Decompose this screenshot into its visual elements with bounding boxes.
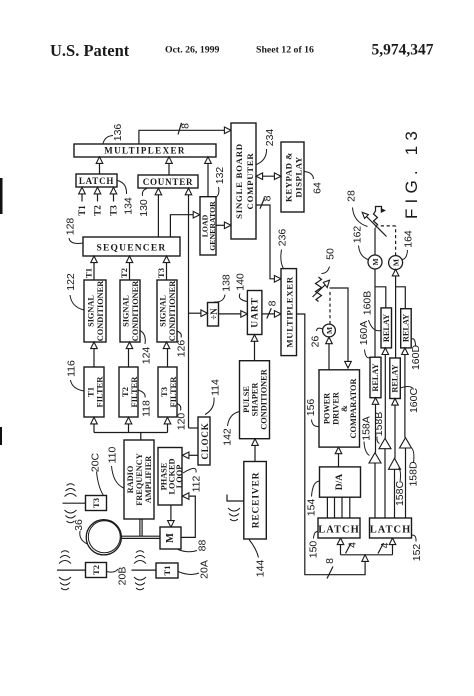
- svg-text:SIGNAL: SIGNAL: [159, 295, 168, 327]
- label 132: [214, 167, 226, 198]
- svg-text:LOOP: LOOP: [175, 465, 184, 489]
- wire sequencer to counter: [155, 188, 162, 237]
- svg-text:D/A: D/A: [335, 474, 345, 491]
- wire bus to divide by N: [189, 310, 208, 317]
- label 160C: [401, 387, 421, 413]
- svg-text:20A: 20A: [199, 560, 211, 579]
- wire t3 filter to sc3: [163, 342, 170, 367]
- svg-text:RELAY: RELAY: [391, 364, 400, 392]
- svg-text:134: 134: [123, 197, 135, 215]
- label 158A: [361, 416, 373, 455]
- T2 input stub to latch: [93, 187, 103, 215]
- motor circle 164: [389, 256, 403, 270]
- svg-text:LATCH: LATCH: [79, 176, 114, 186]
- svg-text:126: 126: [176, 340, 188, 358]
- svg-text:RELAY: RELAY: [382, 314, 391, 342]
- label 50: [322, 248, 337, 273]
- antenna T1: [132, 551, 157, 590]
- wire D/A to power driver: [335, 447, 342, 467]
- transmitter T3 box: [86, 496, 107, 511]
- svg-text:162: 162: [352, 226, 364, 244]
- svg-text:150: 150: [308, 541, 320, 559]
- label 36: [73, 519, 88, 544]
- FIG. 13: [402, 126, 421, 219]
- wire load generator to single board computer: [216, 222, 231, 229]
- svg-text:SINGLE BOARD: SINGLE BOARD: [234, 143, 244, 219]
- latch box 150: [318, 518, 360, 538]
- relay box 160D: [401, 309, 412, 348]
- label 162: [352, 226, 369, 260]
- label 158D: [408, 448, 420, 487]
- T3 filter box: [158, 367, 178, 417]
- label 160D: [410, 339, 422, 370]
- wire rheostat to power driver: [330, 288, 352, 368]
- latch splitter wire with /4 branches: [337, 538, 396, 555]
- svg-text:26: 26: [310, 336, 322, 348]
- svg-text:20B: 20B: [117, 567, 129, 586]
- svg-text:CONDITIONER: CONDITIONER: [131, 280, 140, 341]
- label 150: [308, 531, 320, 558]
- svg-text:COUNTER: COUNTER: [143, 177, 194, 187]
- motor circle 26 drive: [323, 324, 336, 337]
- svg-text:÷N: ÷N: [209, 308, 219, 320]
- label 126: [176, 331, 188, 357]
- svg-text:T3: T3: [91, 498, 101, 508]
- svg-text:160B: 160B: [362, 291, 374, 316]
- relay box 160C: [390, 358, 401, 399]
- bidirectional wire SBC to keypad: [256, 173, 281, 180]
- svg-text:28: 28: [346, 190, 358, 202]
- svg-text:Oct. 26, 1999: Oct. 26, 1999: [165, 45, 220, 56]
- loop antenna coil 36: [86, 520, 121, 555]
- buffer 158A to relay 160A: [369, 398, 381, 518]
- wire SBC to multiplexer2 with /8: [256, 195, 281, 282]
- svg-text:M: M: [392, 259, 401, 266]
- wire t2 filter to sc2: [126, 342, 133, 367]
- single board computer box: [231, 123, 256, 239]
- svg-text:FILTER: FILTER: [95, 376, 105, 408]
- rf amp output bus to filters: [91, 417, 171, 440]
- wire sequencer to load generator: [170, 211, 199, 237]
- label 128: [65, 218, 84, 244]
- svg-text:4: 4: [379, 542, 391, 548]
- wire load generator to multiplexer: [205, 157, 212, 197]
- label 118: [138, 390, 153, 417]
- svg-text:LATCH: LATCH: [318, 525, 360, 536]
- label 20C: [90, 452, 104, 495]
- svg-text:130: 130: [138, 199, 150, 217]
- svg-text:138: 138: [221, 274, 233, 292]
- label 158C: [394, 468, 406, 506]
- svg-text:8: 8: [180, 123, 192, 129]
- svg-text:SIGNAL: SIGNAL: [87, 295, 96, 327]
- svg-text:110: 110: [107, 446, 119, 463]
- wire latch to multiplexer: [96, 157, 103, 174]
- label 138: [214, 274, 233, 302]
- counter box: [138, 175, 198, 188]
- mechanical double link coil to motor M: [121, 536, 160, 538]
- svg-text:RELAY: RELAY: [371, 363, 380, 391]
- svg-text:CONDITIONER: CONDITIONER: [96, 280, 105, 341]
- label 154: [306, 481, 320, 516]
- svg-text:88: 88: [197, 540, 209, 552]
- svg-text:SIGNAL: SIGNAL: [122, 295, 131, 327]
- label 20A: [178, 560, 211, 579]
- svg-text:36: 36: [73, 519, 85, 531]
- svg-text:FILTER: FILTER: [168, 376, 178, 408]
- svg-text:SHAPER: SHAPER: [251, 382, 260, 417]
- antenna T3: [63, 484, 86, 523]
- label 116: [66, 360, 85, 391]
- svg-text:M: M: [165, 533, 176, 543]
- signal conditioner 1 box: [84, 280, 106, 342]
- svg-text:160C: 160C: [408, 388, 420, 414]
- load generator box: [200, 197, 217, 255]
- phase locked loop box: [158, 448, 184, 506]
- latch box 152: [370, 518, 412, 538]
- svg-text:118: 118: [141, 400, 153, 417]
- svg-text:FILTER: FILTER: [129, 376, 139, 408]
- label 140: [235, 273, 248, 301]
- antenna T2: [57, 551, 86, 590]
- label 236: [277, 229, 289, 269]
- svg-text:UART: UART: [251, 297, 261, 328]
- svg-text:158D: 158D: [408, 461, 420, 487]
- svg-text:154: 154: [306, 499, 318, 517]
- signal conditioner 3 box: [157, 280, 177, 342]
- power driver and comparator box: [319, 370, 360, 447]
- wire sc2 to sequencer with T2: [119, 256, 133, 280]
- wire t1 filter to sc1: [91, 342, 98, 367]
- label 136: [103, 124, 124, 144]
- wire motor 162 to relay A and relay B: [375, 269, 386, 357]
- svg-text:158C: 158C: [394, 481, 406, 507]
- svg-text:MULTIPLEXER: MULTIPLEXER: [285, 276, 295, 347]
- wire clock to bus: [189, 427, 199, 429]
- svg-text:122: 122: [65, 273, 77, 291]
- svg-text:64: 64: [312, 182, 324, 194]
- radio frequency amplifier box: [124, 440, 154, 519]
- svg-text:128: 128: [65, 218, 77, 236]
- wire motor M to pll right edge: [181, 493, 195, 538]
- receiver antenna: [227, 495, 244, 521]
- transmitter T1 box: [156, 563, 178, 578]
- svg-text:156: 156: [305, 399, 317, 417]
- svg-text:Sheet 12 of 16: Sheet 12 of 16: [256, 45, 314, 56]
- label 158B: [373, 412, 385, 444]
- svg-text:T1: T1: [84, 268, 94, 278]
- svg-text:160D: 160D: [410, 345, 422, 371]
- svg-text:T2: T2: [91, 565, 101, 575]
- svg-text:160A: 160A: [358, 321, 370, 346]
- svg-text:U.S. Patent: U.S. Patent: [50, 41, 130, 60]
- svg-text:120: 120: [176, 413, 188, 431]
- label 152: [411, 535, 423, 561]
- label 88: [178, 540, 209, 552]
- multiplexer2 vertical box: [281, 269, 297, 356]
- dashed shaft motor 164 to element 28: [378, 226, 396, 256]
- transmitter T2 box: [86, 563, 107, 578]
- wire mux top to SBC with /8: [139, 123, 231, 144]
- T1 input stub to latch: [77, 187, 87, 215]
- svg-text:RELAY: RELAY: [402, 314, 411, 342]
- sequencer box: [83, 237, 180, 256]
- label 234: [257, 129, 277, 165]
- label 130: [138, 189, 150, 217]
- svg-text:CONDITIONER: CONDITIONER: [260, 368, 269, 429]
- svg-text:CLOCK: CLOCK: [200, 422, 210, 459]
- svg-text:116: 116: [66, 360, 78, 377]
- svg-text:LATCH: LATCH: [370, 525, 412, 536]
- motor box M: [160, 527, 181, 549]
- clock box: [198, 417, 210, 465]
- buffer 158D to relay 160D: [400, 348, 412, 518]
- label 142: [222, 412, 240, 446]
- svg-text:MULTIPLEXER: MULTIPLEXER: [104, 146, 186, 156]
- signal conditioner 2 box: [120, 280, 140, 342]
- D/A box: [320, 467, 361, 497]
- label 110: [107, 446, 124, 488]
- keypad and display box: [281, 142, 304, 212]
- wire clock to phase locked loop: [182, 452, 198, 459]
- buffer 158B to relay 160B: [379, 348, 391, 518]
- svg-text:M: M: [325, 327, 334, 334]
- T2 filter box: [119, 367, 139, 417]
- scan artifact left edge upper: [0, 178, 3, 214]
- rheostat 50 zigzag with arrow: [313, 277, 330, 302]
- svg-text:158A: 158A: [361, 416, 373, 441]
- svg-text:KEYPAD &: KEYPAD &: [284, 152, 294, 202]
- relay box 160A: [370, 357, 381, 398]
- svg-text:236: 236: [277, 229, 289, 247]
- svg-text:8: 8: [324, 558, 336, 564]
- T1 filter box: [84, 367, 105, 417]
- svg-text:5,974,347: 5,974,347: [372, 42, 434, 59]
- wire power driver to motor 26: [326, 337, 333, 370]
- wire receiver to pulse shaper: [252, 439, 259, 462]
- clock bus vertical wire: [185, 188, 192, 428]
- uart box: [247, 291, 262, 335]
- label 64: [305, 172, 324, 194]
- svg-text:8: 8: [262, 195, 274, 201]
- svg-text:142: 142: [222, 428, 234, 446]
- wire sc3 to sequencer with T3: [156, 256, 170, 280]
- svg-text:132: 132: [214, 167, 226, 185]
- wire multiplexer2 to latch splitter with /8: [297, 314, 369, 579]
- label 26: [310, 328, 323, 347]
- svg-text:DISPLAY: DISPLAY: [294, 156, 304, 197]
- svg-text:COMPARATOR: COMPARATOR: [349, 378, 358, 439]
- svg-text:M: M: [371, 258, 380, 265]
- svg-text:152: 152: [411, 544, 423, 562]
- label 28: [346, 190, 368, 226]
- svg-text:T1: T1: [162, 566, 172, 576]
- svg-text:136: 136: [112, 124, 124, 142]
- svg-text:AMPLIFIER: AMPLIFIER: [144, 455, 153, 503]
- svg-text:CONDITIONER: CONDITIONER: [168, 280, 177, 341]
- svg-text:124: 124: [141, 347, 153, 365]
- divide by N box: [208, 303, 220, 327]
- svg-text:158B: 158B: [373, 412, 385, 437]
- label 114: [205, 379, 222, 415]
- svg-text:20C: 20C: [90, 452, 102, 472]
- svg-text:FREQUENCY: FREQUENCY: [135, 453, 144, 506]
- svg-text:234: 234: [264, 129, 276, 147]
- svg-text:112: 112: [191, 475, 203, 492]
- wire counter to multiplexer: [166, 157, 173, 175]
- svg-text:164: 164: [403, 230, 415, 248]
- pulse shaper conditioner box: [240, 361, 270, 439]
- svg-text:POWER: POWER: [323, 392, 332, 424]
- svg-text:8: 8: [267, 300, 279, 306]
- svg-text:COMPUTER: COMPUTER: [245, 153, 255, 210]
- bus D/A to latch 150: [327, 497, 349, 518]
- scan artifact left edge lower: [0, 427, 2, 445]
- wire relays C D to motor 164: [392, 269, 405, 358]
- svg-text:T2: T2: [93, 205, 103, 216]
- motor circle 162: [368, 255, 382, 269]
- buffer 158C to relay 160C: [389, 399, 401, 519]
- wire sc1 to sequencer with T1: [84, 256, 98, 280]
- multiplexer box (top): [74, 144, 216, 157]
- label 160B: [362, 291, 382, 331]
- label 124: [140, 331, 153, 365]
- svg-text:T1: T1: [77, 205, 87, 216]
- latch box (top): [76, 174, 117, 187]
- label 144: [249, 540, 267, 578]
- svg-text:144: 144: [255, 560, 267, 578]
- tunable antenna element 28: [362, 207, 386, 256]
- label 120: [176, 404, 188, 431]
- double link up to rf amplifier: [140, 519, 142, 536]
- relay box 160B: [381, 308, 392, 348]
- label 160A: [358, 321, 370, 358]
- svg-text:RECEIVER: RECEIVER: [252, 472, 262, 529]
- wire divide by N to uart: [219, 311, 248, 318]
- svg-text:50: 50: [325, 248, 337, 260]
- wire pulse shaper to uart: [251, 335, 258, 361]
- label 134: [118, 181, 135, 215]
- svg-text:T3: T3: [109, 205, 119, 216]
- svg-text:T3: T3: [156, 268, 166, 278]
- svg-text:RADIO: RADIO: [126, 465, 135, 493]
- svg-text:T2: T2: [119, 268, 129, 278]
- T3 input stub to latch: [109, 187, 119, 215]
- wire uart to multiplexer2 with /8: [262, 300, 281, 318]
- svg-text:&: &: [340, 405, 349, 412]
- svg-text:140: 140: [235, 273, 247, 291]
- svg-text:GENERATOR: GENERATOR: [208, 201, 217, 251]
- svg-text:4: 4: [347, 542, 359, 548]
- svg-text:SEQUENCER: SEQUENCER: [97, 244, 167, 254]
- label 112: [183, 468, 203, 492]
- label 122: [65, 273, 84, 310]
- label 164: [403, 230, 415, 259]
- label 20B: [107, 567, 129, 586]
- svg-text:114: 114: [210, 379, 222, 396]
- label 156: [305, 399, 319, 427]
- svg-text:FIG. 13: FIG. 13: [402, 126, 421, 219]
- wire pll to motor box M: [168, 505, 175, 527]
- receiver box: [244, 462, 266, 540]
- dashed shaft motor 26 to rheostat 50: [329, 291, 331, 324]
